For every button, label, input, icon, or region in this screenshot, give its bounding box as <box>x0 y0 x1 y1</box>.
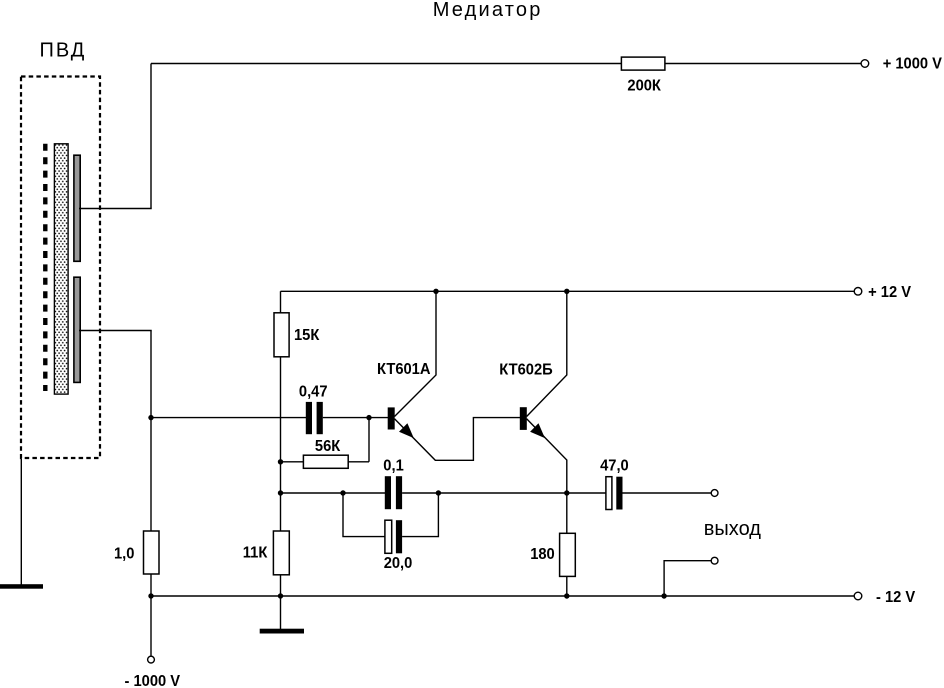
label КТ602Б <box>499 361 552 379</box>
terminal +1000V <box>861 60 869 68</box>
wire 1,0 branch lower <box>150 574 152 656</box>
label 15К <box>294 326 320 344</box>
node Q1 collector junction <box>433 289 438 294</box>
terminal output hot <box>711 490 718 497</box>
label КТ601А <box>377 360 430 378</box>
capacitor C2 0,1 plate A <box>385 476 391 509</box>
svg-text:56К: 56К <box>315 437 341 455</box>
node base-input junction <box>148 415 153 420</box>
wire +12V rail <box>281 290 855 292</box>
capacitor C2 0,1 plate B <box>396 476 402 509</box>
node 20,0 branch left <box>340 490 345 495</box>
node -12V rail left junction <box>148 593 153 598</box>
label + 1000 V <box>883 55 943 73</box>
resistor R1 200K <box>621 57 665 70</box>
label 20,0 <box>384 554 413 572</box>
label 56К <box>315 437 341 455</box>
svg-text:20,0: 20,0 <box>384 554 413 572</box>
label 0,1 <box>383 457 404 475</box>
wire anode2 horizontal <box>79 330 152 332</box>
transistor Q2 emitter arrow <box>530 423 545 438</box>
resistor R4 11K <box>273 531 289 575</box>
terminal -12V <box>854 592 862 600</box>
resistor R3 56K <box>303 455 348 468</box>
svg-text:выход: выход <box>704 518 761 540</box>
wire base line right segment <box>323 417 388 419</box>
wire output line middle <box>402 492 606 494</box>
node -12V rail 11K junction <box>278 593 283 598</box>
svg-text:1,0: 1,0 <box>114 545 134 563</box>
wire left column (15K/11K branch) <box>280 291 282 629</box>
detector dashed box <box>21 77 100 459</box>
wire 20,0 branch left leg <box>343 493 386 537</box>
transistor Q2 base bar <box>520 407 527 430</box>
label выход <box>704 518 761 540</box>
capacitor C1 0,47 plate A <box>306 402 312 434</box>
svg-text:+ 12 V: + 12 V <box>868 284 912 302</box>
svg-text:Медиатор: Медиатор <box>433 0 543 21</box>
wire 56K right lead <box>348 418 369 462</box>
terminal output cold <box>711 557 718 564</box>
wire 180 branch <box>566 493 568 596</box>
svg-text:11К: 11К <box>243 544 268 562</box>
detector cathode dashed electrode <box>43 144 47 391</box>
resistor R6 1,0 <box>144 531 160 574</box>
wire rail to anode1 (vertical) <box>150 64 152 209</box>
node 180 bottom junction <box>564 593 569 598</box>
label ПВД <box>40 40 87 62</box>
label - 12 V <box>876 588 916 606</box>
capacitor C3 20,0 plate B <box>396 520 402 553</box>
detector anode bar 2 <box>74 277 80 382</box>
transistor Q1 emitter <box>395 418 521 461</box>
node output cold junction <box>661 593 666 598</box>
detector anode bar 1 <box>74 155 80 261</box>
wire anode2 down to base node <box>150 331 152 419</box>
ground (center) <box>260 629 304 634</box>
terminal +12V <box>854 288 862 296</box>
svg-text:КТ601А: КТ601А <box>377 360 430 378</box>
resistor R5 180 <box>560 533 576 576</box>
wire 56K left lead <box>281 461 305 463</box>
svg-text:ПВД: ПВД <box>40 40 87 62</box>
resistor R2 15K <box>274 313 289 357</box>
label - 1000 V <box>125 672 181 688</box>
node Q2 emitter junction <box>564 490 569 495</box>
wire -12V rail <box>151 595 854 597</box>
label 200К <box>627 77 661 95</box>
svg-text:- 12 V: - 12 V <box>876 588 916 606</box>
node 56K left junction <box>278 459 283 464</box>
title Медиатор <box>433 0 543 21</box>
label 180 <box>530 545 555 563</box>
wire 1,0 branch upper <box>150 418 152 532</box>
detector stippled electrode <box>54 144 68 394</box>
label 1,0 <box>114 545 134 563</box>
node output-line left junction <box>278 490 283 495</box>
transistor Q1 collector <box>395 291 437 416</box>
svg-text:200К: 200К <box>627 77 661 95</box>
label 0,47 <box>299 383 328 401</box>
svg-text:0,1: 0,1 <box>383 457 404 475</box>
node Q2 collector junction <box>564 289 569 294</box>
svg-text:47,0: 47,0 <box>600 457 629 475</box>
svg-text:+ 1000 V: + 1000 V <box>883 55 943 73</box>
wire detector box to ground <box>20 458 22 584</box>
capacitor C4 47,0 plate A (outline) <box>606 477 612 510</box>
capacitor C1 0,47 plate B <box>317 402 323 434</box>
label +12 V <box>868 284 912 302</box>
node 56K top junction <box>366 415 371 420</box>
capacitor C4 47,0 plate B <box>616 477 622 510</box>
label 11К <box>243 544 268 562</box>
transistor Q1 emitter arrow <box>399 423 414 438</box>
wire 20,0 branch right leg <box>402 493 438 537</box>
wire +1000V rail <box>151 63 862 65</box>
terminal -1000V <box>148 656 155 663</box>
svg-text:- 1000 V: - 1000 V <box>125 672 181 688</box>
label 47,0 <box>600 457 629 475</box>
svg-text:15К: 15К <box>294 326 320 344</box>
wire anode1 horizontal <box>79 208 152 210</box>
wire base line left segment <box>151 417 307 419</box>
ground (left) <box>0 584 43 589</box>
transistor Q1 base bar <box>388 407 395 429</box>
transistor Q2 emitter <box>527 419 567 493</box>
wire output cold branch <box>664 561 711 596</box>
node 20,0 branch right <box>436 490 441 495</box>
svg-text:КТ602Б: КТ602Б <box>499 361 552 379</box>
wire output line left <box>281 492 386 494</box>
wire output line right <box>623 492 712 494</box>
svg-text:180: 180 <box>530 545 555 563</box>
svg-text:0,47: 0,47 <box>299 383 328 401</box>
transistor Q2 collector <box>527 291 567 416</box>
capacitor C3 20,0 plate A (outline) <box>385 520 392 553</box>
